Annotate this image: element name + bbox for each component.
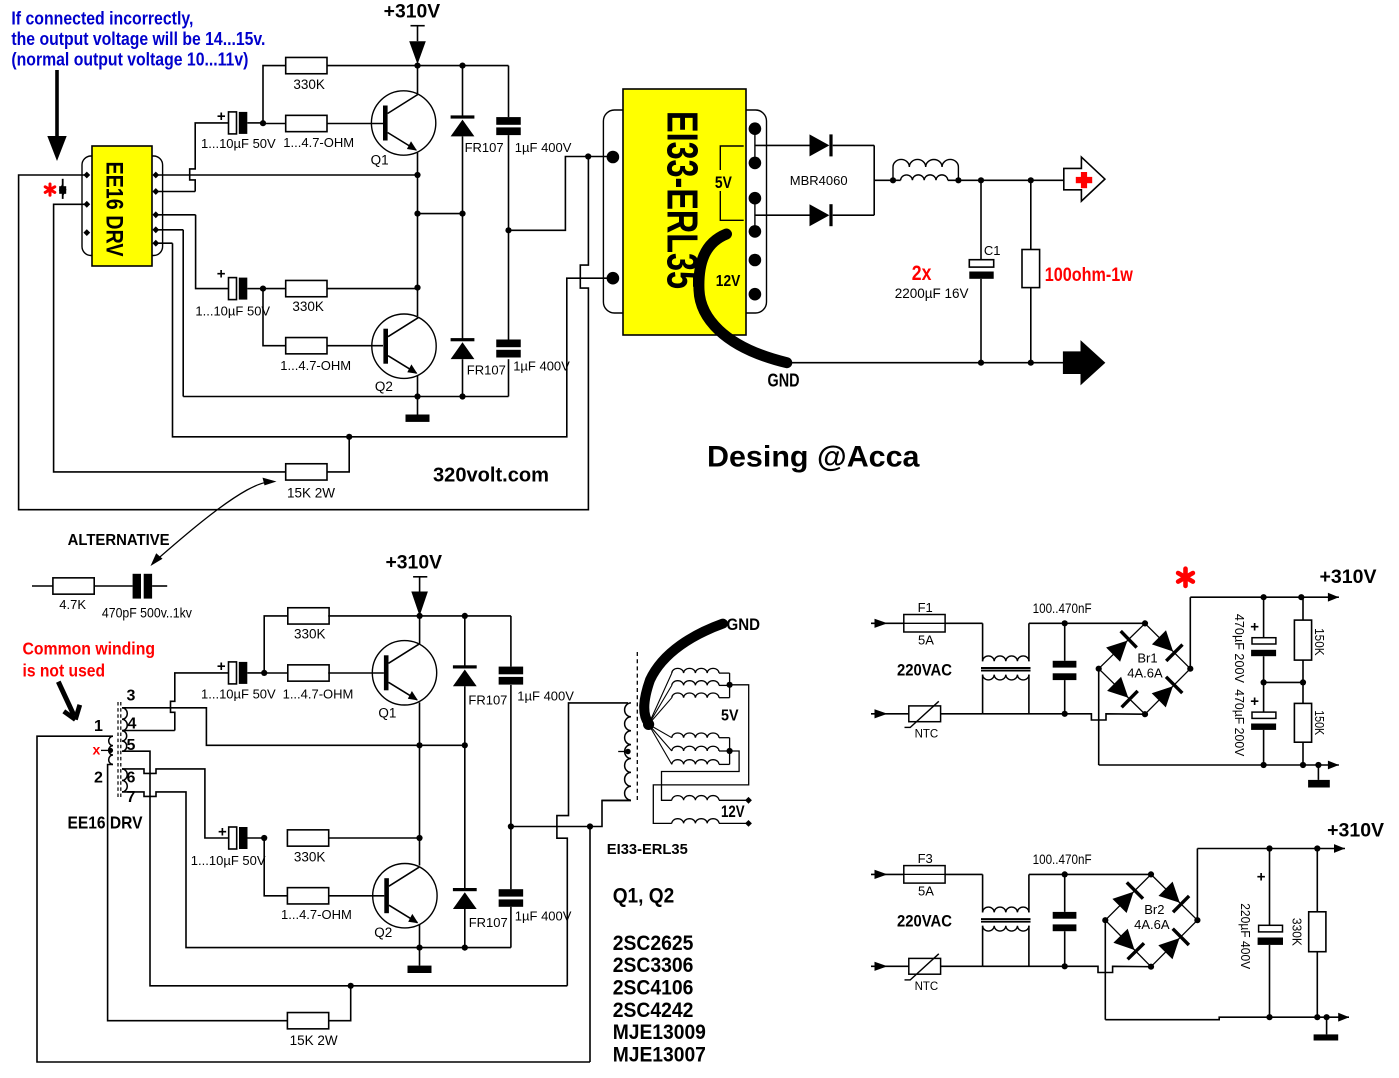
svg-text:5V: 5V — [721, 708, 739, 725]
svg-text:+: + — [217, 266, 226, 283]
svg-text:(normal output voltage 10...11: (normal output voltage 10...11v) — [11, 48, 248, 69]
svg-text:220VAC: 220VAC — [897, 660, 952, 679]
svg-text:330K: 330K — [293, 77, 325, 92]
svg-text:2SC3306: 2SC3306 — [613, 954, 694, 977]
svg-text:ALTERNATIVE: ALTERNATIVE — [68, 532, 170, 549]
svg-text:+: + — [1257, 869, 1266, 886]
svg-text:1...10µF 50V: 1...10µF 50V — [201, 136, 276, 151]
svg-text:MBR4060: MBR4060 — [790, 173, 848, 188]
svg-text:3: 3 — [127, 688, 136, 705]
svg-text:4.7K: 4.7K — [59, 597, 86, 612]
svg-text:1µF 400V: 1µF 400V — [515, 140, 572, 155]
svg-text:2SC4242: 2SC4242 — [613, 999, 694, 1022]
svg-text:is not used: is not used — [23, 661, 106, 681]
svg-text:GND: GND — [768, 371, 800, 391]
svg-text:220µF 400V: 220µF 400V — [1238, 903, 1252, 970]
svg-text:470µF 200V: 470µF 200V — [1232, 614, 1246, 684]
svg-text:1µF 400V: 1µF 400V — [515, 909, 572, 924]
svg-text:5A: 5A — [918, 884, 934, 899]
svg-text:4A.6A: 4A.6A — [1127, 665, 1163, 680]
svg-text:+310V: +310V — [1327, 821, 1384, 842]
svg-text:15K 2W: 15K 2W — [290, 1033, 338, 1048]
svg-text:150K: 150K — [1312, 710, 1326, 736]
svg-text:150K: 150K — [1312, 628, 1326, 656]
svg-text:1...10µF 50V: 1...10µF 50V — [195, 303, 270, 318]
svg-text:2SC4106: 2SC4106 — [613, 977, 694, 1000]
svg-text:F3: F3 — [918, 851, 933, 866]
svg-text:FR107: FR107 — [465, 140, 504, 155]
svg-text:Desing @Acca: Desing @Acca — [707, 441, 920, 474]
svg-text:330K: 330K — [294, 627, 326, 642]
svg-text:1µF 400V: 1µF 400V — [513, 359, 570, 374]
svg-text:5A: 5A — [918, 633, 934, 648]
svg-text:12V: 12V — [721, 803, 745, 821]
svg-text:Q1: Q1 — [371, 153, 389, 168]
svg-text:Br2: Br2 — [1144, 902, 1164, 917]
svg-text:NTC: NTC — [915, 981, 939, 993]
svg-text:+: + — [217, 658, 226, 675]
svg-text:15K 2W: 15K 2W — [287, 486, 335, 501]
svg-text:330K: 330K — [294, 850, 326, 865]
svg-text:470pF 500v..1kv: 470pF 500v..1kv — [102, 606, 192, 621]
svg-text:+: + — [1250, 693, 1259, 710]
svg-text:MJE13007: MJE13007 — [613, 1043, 706, 1066]
svg-text:330K: 330K — [1290, 918, 1304, 947]
svg-text:4A.6A: 4A.6A — [1134, 917, 1170, 932]
svg-text:Q2: Q2 — [374, 925, 392, 940]
svg-text:Q1, Q2: Q1, Q2 — [613, 885, 675, 908]
svg-text:1...4.7-OHM: 1...4.7-OHM — [283, 686, 354, 701]
svg-text:x: x — [93, 742, 101, 758]
svg-text:5V: 5V — [715, 173, 733, 192]
svg-text:2200µF 16V: 2200µF 16V — [895, 286, 969, 301]
svg-text:NTC: NTC — [915, 729, 939, 741]
svg-text:FR107: FR107 — [468, 693, 507, 708]
svg-text:GND: GND — [727, 615, 761, 634]
svg-text:100ohm-1w: 100ohm-1w — [1045, 265, 1133, 286]
svg-text:1µF 400V: 1µF 400V — [517, 689, 574, 704]
svg-text:100..470nF: 100..470nF — [1033, 601, 1092, 616]
svg-text:1...10µF 50V: 1...10µF 50V — [191, 853, 266, 868]
svg-text:Q2: Q2 — [375, 379, 393, 394]
svg-text:MJE13009: MJE13009 — [613, 1021, 706, 1044]
svg-text:EE16 DRV: EE16 DRV — [68, 813, 143, 833]
svg-text:+: + — [1250, 619, 1259, 636]
svg-text:If connected incorrectly,: If connected incorrectly, — [11, 7, 193, 28]
svg-text:100..470nF: 100..470nF — [1033, 852, 1092, 867]
svg-text:FR107: FR107 — [467, 363, 506, 378]
svg-text:Br1: Br1 — [1137, 651, 1157, 666]
svg-text:Q1: Q1 — [378, 705, 396, 720]
svg-text:6: 6 — [127, 770, 136, 787]
svg-text:1...4.7-OHM: 1...4.7-OHM — [280, 358, 351, 373]
svg-text:1...10µF 50V: 1...10µF 50V — [201, 686, 276, 701]
svg-text:2: 2 — [94, 770, 103, 787]
svg-text:Common winding: Common winding — [23, 639, 156, 659]
svg-text:470µF 200V: 470µF 200V — [1232, 689, 1246, 757]
svg-text:1: 1 — [94, 718, 103, 735]
svg-text:FR107: FR107 — [469, 915, 508, 930]
svg-text:+310V: +310V — [384, 2, 441, 23]
svg-text:C1: C1 — [984, 243, 1001, 258]
svg-text:F1: F1 — [918, 600, 933, 615]
svg-text:the output voltage will be 14.: the output voltage will be 14...15v. — [11, 28, 265, 49]
svg-text:+310V: +310V — [1320, 567, 1377, 588]
svg-text:220VAC: 220VAC — [897, 911, 952, 930]
svg-text:2SC2625: 2SC2625 — [613, 932, 694, 955]
svg-text:+: + — [218, 824, 227, 841]
svg-text:+: + — [217, 108, 226, 125]
svg-text:330K: 330K — [292, 299, 324, 314]
svg-text:+310V: +310V — [386, 553, 443, 574]
svg-text:12V: 12V — [716, 273, 741, 290]
svg-text:1...4.7-OHM: 1...4.7-OHM — [283, 135, 354, 150]
svg-text:1...4.7-OHM: 1...4.7-OHM — [281, 907, 352, 922]
svg-text:2x: 2x — [912, 262, 932, 285]
svg-text:320volt.com: 320volt.com — [433, 465, 549, 487]
svg-text:EI33-ERL35: EI33-ERL35 — [607, 842, 688, 858]
svg-text:EE16 DRV: EE16 DRV — [101, 162, 128, 257]
